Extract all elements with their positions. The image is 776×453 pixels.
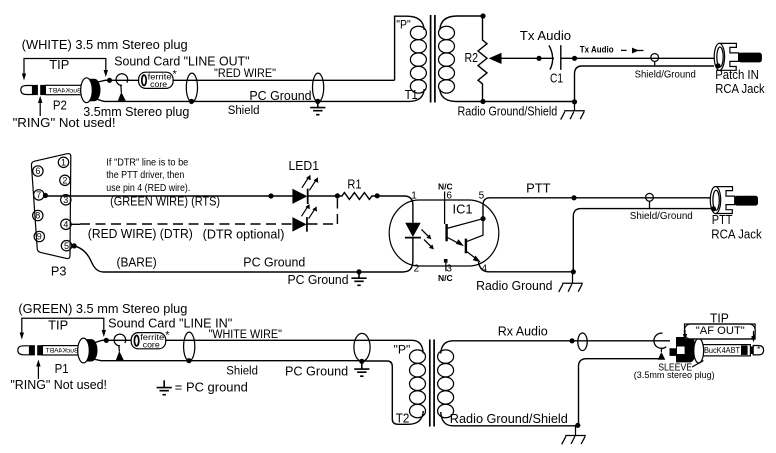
svg-text:2: 2: [62, 175, 67, 185]
svg-text:"RING" Not used!: "RING" Not used!: [13, 116, 116, 130]
svg-text:the PTT driver, then: the PTT driver, then: [106, 169, 184, 181]
svg-text:"AF OUT": "AF OUT": [696, 325, 745, 337]
svg-text:(DTR optional): (DTR optional): [203, 228, 285, 242]
svg-text:8: 8: [35, 211, 40, 221]
svg-text:= PC ground: = PC ground: [175, 381, 248, 395]
svg-text:Sound Card "LINE OUT": Sound Card "LINE OUT": [114, 55, 249, 69]
svg-text:BucK4ABT: BucK4ABT: [704, 345, 740, 355]
svg-text:Shield/Ground: Shield/Ground: [630, 211, 693, 222]
svg-text:(GREEN) 3.5 mm Stereo plug: (GREEN) 3.5 mm Stereo plug: [18, 302, 187, 316]
svg-text:P2: P2: [53, 99, 67, 113]
svg-text:(WHITE) 3.5 mm Stereo plug: (WHITE) 3.5 mm Stereo plug: [22, 38, 188, 52]
svg-text:TIP: TIP: [48, 318, 68, 332]
svg-text:T1: T1: [405, 88, 418, 102]
svg-text:(GREEN WIRE) (RTS): (GREEN WIRE) (RTS): [110, 195, 220, 209]
svg-text:Patch IN: Patch IN: [715, 68, 759, 82]
svg-text:R2: R2: [465, 51, 479, 65]
svg-text:PTT: PTT: [712, 213, 733, 227]
svg-text:LED1: LED1: [289, 159, 320, 173]
svg-text:Radio Ground: Radio Ground: [476, 279, 552, 293]
svg-text:Radio Ground/Shield: Radio Ground/Shield: [458, 105, 558, 119]
svg-text:"RING" Not used!: "RING" Not used!: [10, 378, 107, 392]
svg-text:1: 1: [411, 191, 417, 202]
svg-text:5: 5: [64, 241, 69, 251]
svg-text:*: *: [173, 69, 178, 81]
svg-text:RCA Jack: RCA Jack: [711, 227, 762, 241]
svg-text:Radio Ground/Shield: Radio Ground/Shield: [450, 412, 568, 426]
svg-text:N/C: N/C: [438, 273, 453, 283]
svg-text:PTT: PTT: [526, 181, 551, 196]
svg-text:(RED WIRE) (DTR): (RED WIRE) (DTR): [88, 227, 193, 241]
svg-text:2: 2: [414, 263, 420, 274]
svg-text:TIP: TIP: [710, 311, 729, 326]
svg-text:Tx Audio: Tx Audio: [520, 29, 571, 43]
svg-text:Rx Audio: Rx Audio: [498, 325, 548, 339]
svg-text:T2: T2: [396, 412, 410, 426]
svg-text:Shield: Shield: [226, 366, 258, 378]
svg-text:1: 1: [61, 157, 66, 167]
svg-text:PC Ground: PC Ground: [288, 273, 349, 287]
svg-text:Shield/Ground: Shield/Ground: [635, 70, 696, 81]
svg-text:P3: P3: [51, 264, 67, 278]
svg-text:(BARE): (BARE): [117, 255, 157, 269]
svg-text:9: 9: [37, 232, 42, 242]
svg-text:P1: P1: [55, 362, 69, 376]
svg-text:PC Ground: PC Ground: [243, 256, 305, 270]
svg-text:Shield: Shield: [228, 105, 260, 117]
svg-text:7: 7: [36, 190, 41, 200]
svg-text:"RED WIRE": "RED WIRE": [214, 68, 276, 80]
svg-text:6: 6: [446, 191, 452, 202]
svg-text:4: 4: [63, 219, 68, 229]
svg-text:6: 6: [35, 166, 40, 176]
svg-text:TIP: TIP: [49, 58, 69, 72]
svg-text:5: 5: [479, 191, 485, 202]
svg-text:*: *: [165, 330, 170, 342]
svg-text:"P": "P": [394, 342, 411, 356]
svg-text:"WHITE WIRE": "WHITE WIRE": [209, 329, 282, 341]
svg-text:PC Ground: PC Ground: [249, 89, 311, 103]
svg-text:C1: C1: [550, 72, 563, 86]
svg-text:use pin 4 (RED wire).: use pin 4 (RED wire).: [106, 182, 190, 194]
svg-text:"P": "P": [396, 18, 411, 32]
svg-text:4: 4: [482, 263, 488, 274]
svg-text:(3.5mm stereo plug): (3.5mm stereo plug): [634, 370, 715, 380]
svg-text:N/C: N/C: [438, 181, 453, 191]
svg-text:PC Ground: PC Ground: [285, 365, 348, 379]
svg-text:R1: R1: [347, 178, 361, 192]
svg-text:Tx Audio: Tx Audio: [580, 45, 614, 55]
svg-text:RCA Jack: RCA Jack: [715, 82, 765, 96]
svg-text:IC1: IC1: [453, 202, 473, 216]
svg-text:If "DTR" line is to be: If "DTR" line is to be: [106, 157, 188, 169]
